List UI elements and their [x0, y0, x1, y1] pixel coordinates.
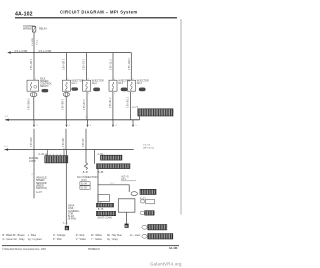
svg-text:0.85–BR: 0.85–BR	[63, 138, 65, 147]
connector small box row0	[146, 199, 155, 203]
svg-text:57: 57	[86, 117, 89, 119]
bus2 left continuation arrow	[5, 119, 9, 122]
svg-text:1: 1	[114, 93, 115, 95]
svg-text:0.5–L: 0.5–L	[36, 39, 38, 45]
svg-text:2: 2	[114, 79, 115, 81]
svg-text:CIRCUIT DIAGRAM – MPI System: CIRCUIT DIAGRAM – MPI System	[60, 10, 138, 15]
idle speed control servo box	[27, 80, 39, 91]
ECU connector pin wire b	[63, 150, 65, 156]
wire column 1 lower	[33, 97, 35, 120]
svg-text:2: 2	[132, 79, 133, 81]
idle speed control servo label	[40, 78, 52, 88]
svg-text:0.85–GW 2: 0.85–GW 2	[129, 58, 131, 70]
svg-text:LL : Liner: LL : Liner	[130, 234, 140, 237]
svg-text:PWME9117: PWME9117	[88, 249, 101, 251]
svg-text:0.5–L 0.5W: 0.5–L 0.5W	[15, 50, 28, 53]
connector id blob col3	[93, 88, 99, 91]
wire bus2 to junction block	[139, 116, 141, 120]
connector id blob col5	[139, 88, 145, 91]
junction connector block C-71	[138, 109, 173, 116]
connector id blob col4	[121, 88, 127, 91]
svg-text:0.5–L 0.5W: 0.5–L 0.5W	[39, 50, 52, 53]
svg-text:SERVO: SERVO	[40, 85, 48, 88]
svg-text:4: 4	[31, 174, 33, 176]
connector block row2	[148, 225, 167, 230]
ground marker B left	[65, 226, 69, 231]
no connection note	[77, 176, 98, 182]
svg-text:4: 4	[116, 125, 118, 127]
svg-text:P : Pink: P : Pink	[53, 238, 62, 241]
injector No.3 box	[109, 80, 117, 91]
svg-text:B–75: B–75	[98, 208, 104, 211]
svg-text:0.85–BY: 0.85–BY	[83, 138, 85, 147]
connector oval row0	[140, 200, 145, 203]
wire column 3 lower	[86, 92, 88, 120]
injector No.4 box	[128, 80, 136, 91]
svg-text:1: 1	[35, 93, 36, 95]
connector box E-04	[80, 182, 90, 186]
continuation arrow stub col4	[112, 120, 118, 127]
svg-text:W : White: W : White	[91, 234, 102, 237]
connector oval row3	[142, 234, 147, 238]
svg-text:1–3: 1–3	[4, 146, 8, 148]
svg-text:B : Black Br : Brown: B : Black Br : Brown	[3, 234, 26, 237]
small box above block C	[98, 195, 110, 202]
svg-text:RELAY: RELAY	[39, 28, 47, 31]
connector oval row1	[140, 211, 144, 214]
svg-text:2: 2	[35, 79, 36, 81]
bus3 left continuation arrow	[5, 148, 9, 151]
wire column 2 lower	[65, 96, 67, 119]
wire column 1 upper	[33, 53, 35, 81]
connector block row1	[145, 211, 154, 215]
svg-text:© Mitsubishi Motors Corporatio: © Mitsubishi Motors Corporation Dec. 199…	[2, 248, 47, 251]
svg-text:0.85–BY 2: 0.85–BY 2	[84, 99, 86, 110]
injector No.2 label	[92, 80, 104, 85]
injector No.3 label	[118, 80, 130, 85]
svg-text:WIRING: WIRING	[23, 27, 32, 30]
svg-text:Lg : Lt green: Lg : Lt green	[28, 238, 43, 241]
wire column 4 upper	[112, 53, 114, 81]
ECU pin text 14L 16L	[143, 145, 154, 150]
svg-text:(MFI–ECU): (MFI–ECU)	[143, 148, 154, 150]
wire column 2 upper	[66, 53, 68, 81]
svg-text:No.2: No.2	[92, 82, 98, 85]
footer rule	[2, 244, 179, 247]
svg-text:Y : Yellow: Y : Yellow	[91, 238, 102, 241]
svg-text:B–57: B–57	[83, 171, 89, 174]
ECU connector top pin ticks	[47, 154, 65, 156]
wire bus2 to bus3 col1	[33, 129, 35, 150]
svg-text:4A–103: 4A–103	[169, 247, 178, 250]
svg-text:NO CONNECTION: NO CONNECTION	[77, 176, 98, 179]
svg-text:1: 1	[132, 93, 133, 95]
connector oval E	[131, 192, 137, 196]
wire column 3 upper	[86, 53, 88, 81]
continuation arrow stub col5	[132, 120, 138, 127]
svg-text:G : Green Gr : Gray: G : Green Gr : Gray	[3, 238, 26, 241]
main power bus wire	[9, 52, 131, 54]
connector block D	[96, 211, 115, 215]
injector No.1 box	[63, 80, 71, 91]
svg-text:R : Red: R : Red	[76, 234, 85, 237]
second bus wire	[5, 119, 139, 121]
svg-text:4A-102: 4A-102	[15, 11, 33, 17]
continuation arrow stub col2	[65, 120, 71, 127]
connector id blob col2	[72, 88, 78, 91]
svg-text:1: 1	[37, 125, 39, 127]
connector block E	[140, 189, 156, 194]
svg-text:5: 5	[136, 125, 138, 127]
svg-text:A–07: A–07	[36, 191, 42, 194]
svg-text:0.85–GY 2: 0.85–GY 2	[84, 58, 86, 70]
connector block B-56	[97, 164, 130, 169]
svg-text:3: 3	[90, 125, 92, 127]
injector No.1 label	[72, 80, 84, 85]
connector block A-51	[101, 155, 122, 160]
ECU connector pin wire a	[47, 150, 49, 156]
engine control relay label	[23, 25, 36, 31]
data link connector label	[68, 205, 81, 221]
injector No.2 box	[83, 80, 91, 91]
svg-text:No.3: No.3	[118, 82, 124, 85]
vehicle speed sensor label	[36, 177, 47, 194]
header rule	[15, 17, 177, 18]
wire box F to ground	[125, 212, 127, 223]
svg-text:Gy : Gray: Gy : Gray	[107, 238, 118, 241]
ECU connector block	[45, 156, 68, 163]
svg-text:CONT.: CONT.	[29, 160, 37, 163]
svg-text:E–05: E–05	[81, 187, 87, 190]
connector box E-05	[80, 186, 90, 190]
wire relay to bus	[33, 32, 35, 53]
svg-text:SWITCH): SWITCH)	[36, 187, 47, 190]
svg-text:O : Orange: O : Orange	[53, 234, 66, 237]
bus left continuation arrow	[7, 51, 11, 54]
wire vertical x98	[97, 169, 99, 204]
engine control relay symbol	[32, 26, 35, 32]
wire col1 below bus3 to sensor	[33, 150, 35, 199]
svg-text:0.5–BW: 0.5–BW	[32, 37, 34, 46]
alternator label	[121, 176, 129, 182]
svg-text:1: 1	[68, 93, 69, 95]
injector No.4 label	[137, 80, 149, 85]
svg-text:0.85–GR 2: 0.85–GR 2	[64, 58, 66, 70]
svg-text:2: 2	[68, 79, 69, 81]
svg-text:V : Violet: V : Violet	[76, 238, 86, 241]
wire column 5 upper from bus corner	[130, 53, 133, 81]
relay box F	[118, 199, 135, 212]
svg-text:0.85–BL 2: 0.85–BL 2	[110, 97, 112, 108]
svg-text:No.1: No.1	[72, 82, 78, 85]
wire column 5 lower	[130, 92, 132, 120]
svg-text:2: 2	[88, 79, 89, 81]
page right edge line	[180, 19, 182, 215]
noise capacitor squiggle	[85, 163, 88, 170]
svg-text:JOINT CONN.: JOINT CONN.	[97, 217, 113, 220]
svg-text:(8 PIN): (8 PIN)	[68, 218, 76, 221]
svg-text:0.85–BG 2: 0.85–BG 2	[127, 96, 129, 108]
continuation arrow stub col3	[86, 120, 92, 127]
connector block C	[96, 203, 113, 207]
wire color legend row	[3, 234, 141, 241]
svg-text:0.85–BW: 0.85–BW	[31, 137, 33, 147]
connector oval row2	[142, 225, 147, 229]
connector oval col2	[63, 92, 69, 96]
svg-text:0.85–GL 2: 0.85–GL 2	[110, 59, 112, 70]
svg-text:B–56: B–56	[98, 171, 104, 174]
svg-text:0.85–BW 2: 0.85–BW 2	[29, 98, 31, 110]
svg-text:No.4: No.4	[137, 82, 143, 85]
svg-text:C–71: C–71	[132, 106, 138, 109]
connector id blob col1	[42, 89, 48, 92]
junction block label	[132, 106, 138, 109]
wire bus2 to bus3 col2	[65, 129, 67, 150]
ECU label	[29, 157, 39, 163]
connector oval col1	[30, 93, 37, 97]
svg-text:0.85–BR 2: 0.85–BR 2	[63, 98, 65, 110]
wire col3 below bus3	[85, 150, 87, 163]
third bus wire	[5, 149, 134, 151]
svg-text:1–2: 1–2	[5, 116, 9, 118]
svg-text:L : Blue: L : Blue	[28, 234, 37, 237]
svg-text:1: 1	[88, 93, 89, 95]
ground marker B right	[125, 224, 129, 229]
svg-text:14L 16L: 14L 16L	[143, 145, 152, 147]
svg-text:2: 2	[69, 125, 71, 127]
continuation arrow stub col1	[33, 120, 39, 127]
wire column 4 lower	[112, 92, 114, 120]
svg-text:0.85–GB 2: 0.85–GB 2	[31, 58, 33, 70]
L wire horizontal	[98, 185, 129, 192]
svg-text:C–51–2: C–51–2	[39, 153, 48, 156]
svg-text:E–04: E–04	[81, 183, 87, 186]
svg-text:A–26: A–26	[63, 222, 69, 225]
svg-text:Sb : Sky blue: Sb : Sky blue	[107, 234, 122, 237]
wire bus2 to bus3 col3	[85, 129, 87, 150]
connector block row3	[148, 234, 173, 239]
wire right branch below bus3	[94, 150, 96, 164]
wire data link column below bus3	[65, 150, 67, 225]
ALT label underline	[121, 180, 136, 182]
svg-text:GalantVR4.org: GalantVR4.org	[150, 262, 182, 267]
